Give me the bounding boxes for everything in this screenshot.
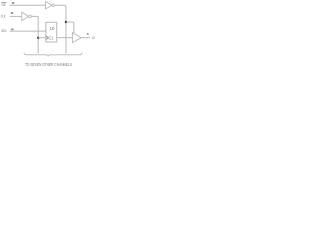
buffer U2 (CLK inverter)	[22, 12, 29, 21]
wire CLK rail down	[31, 16, 38, 53]
junction dot CLK branch	[37, 37, 39, 39]
junction dot OE branch	[65, 21, 67, 23]
background	[0, 0, 97, 71]
buffer U1 (OE inverter)	[46, 1, 52, 9]
svg-text:1D: 1D	[50, 26, 55, 31]
pin number tick SDI	[11, 29, 13, 31]
svg-text:SDI: SDI	[1, 28, 6, 33]
wire OE input	[10, 4, 46, 6]
wire output	[81, 37, 90, 39]
svg-text:OE: OE	[1, 2, 6, 7]
svg-text:C1: C1	[49, 35, 54, 40]
brace to other channels	[24, 53, 82, 57]
wire Q output	[57, 37, 73, 39]
OE overline	[1, 1, 6, 3]
wire D input	[10, 30, 46, 32]
wire OE to vertical rail	[55, 5, 67, 53]
buffer U4 (output driver)	[72, 33, 81, 43]
bubble on U2 output	[29, 15, 32, 18]
svg-text:TO SEVEN OTHER CHANNELS: TO SEVEN OTHER CHANNELS	[25, 62, 72, 67]
svg-text:OUT: OUT	[92, 36, 95, 40]
flip-flop U3 box	[46, 22, 57, 42]
pin number tick OUT	[87, 33, 89, 35]
bubble on U1 output	[52, 4, 55, 7]
wire CLK branch to C1	[38, 37, 46, 39]
pin number tick OE	[12, 2, 14, 4]
svg-text:CLK: CLK	[1, 13, 6, 18]
pin number tick CLK	[11, 12, 13, 14]
wire OE enable branch	[66, 22, 74, 34]
clock wedge	[46, 36, 48, 40]
wire CLK input	[10, 15, 22, 17]
